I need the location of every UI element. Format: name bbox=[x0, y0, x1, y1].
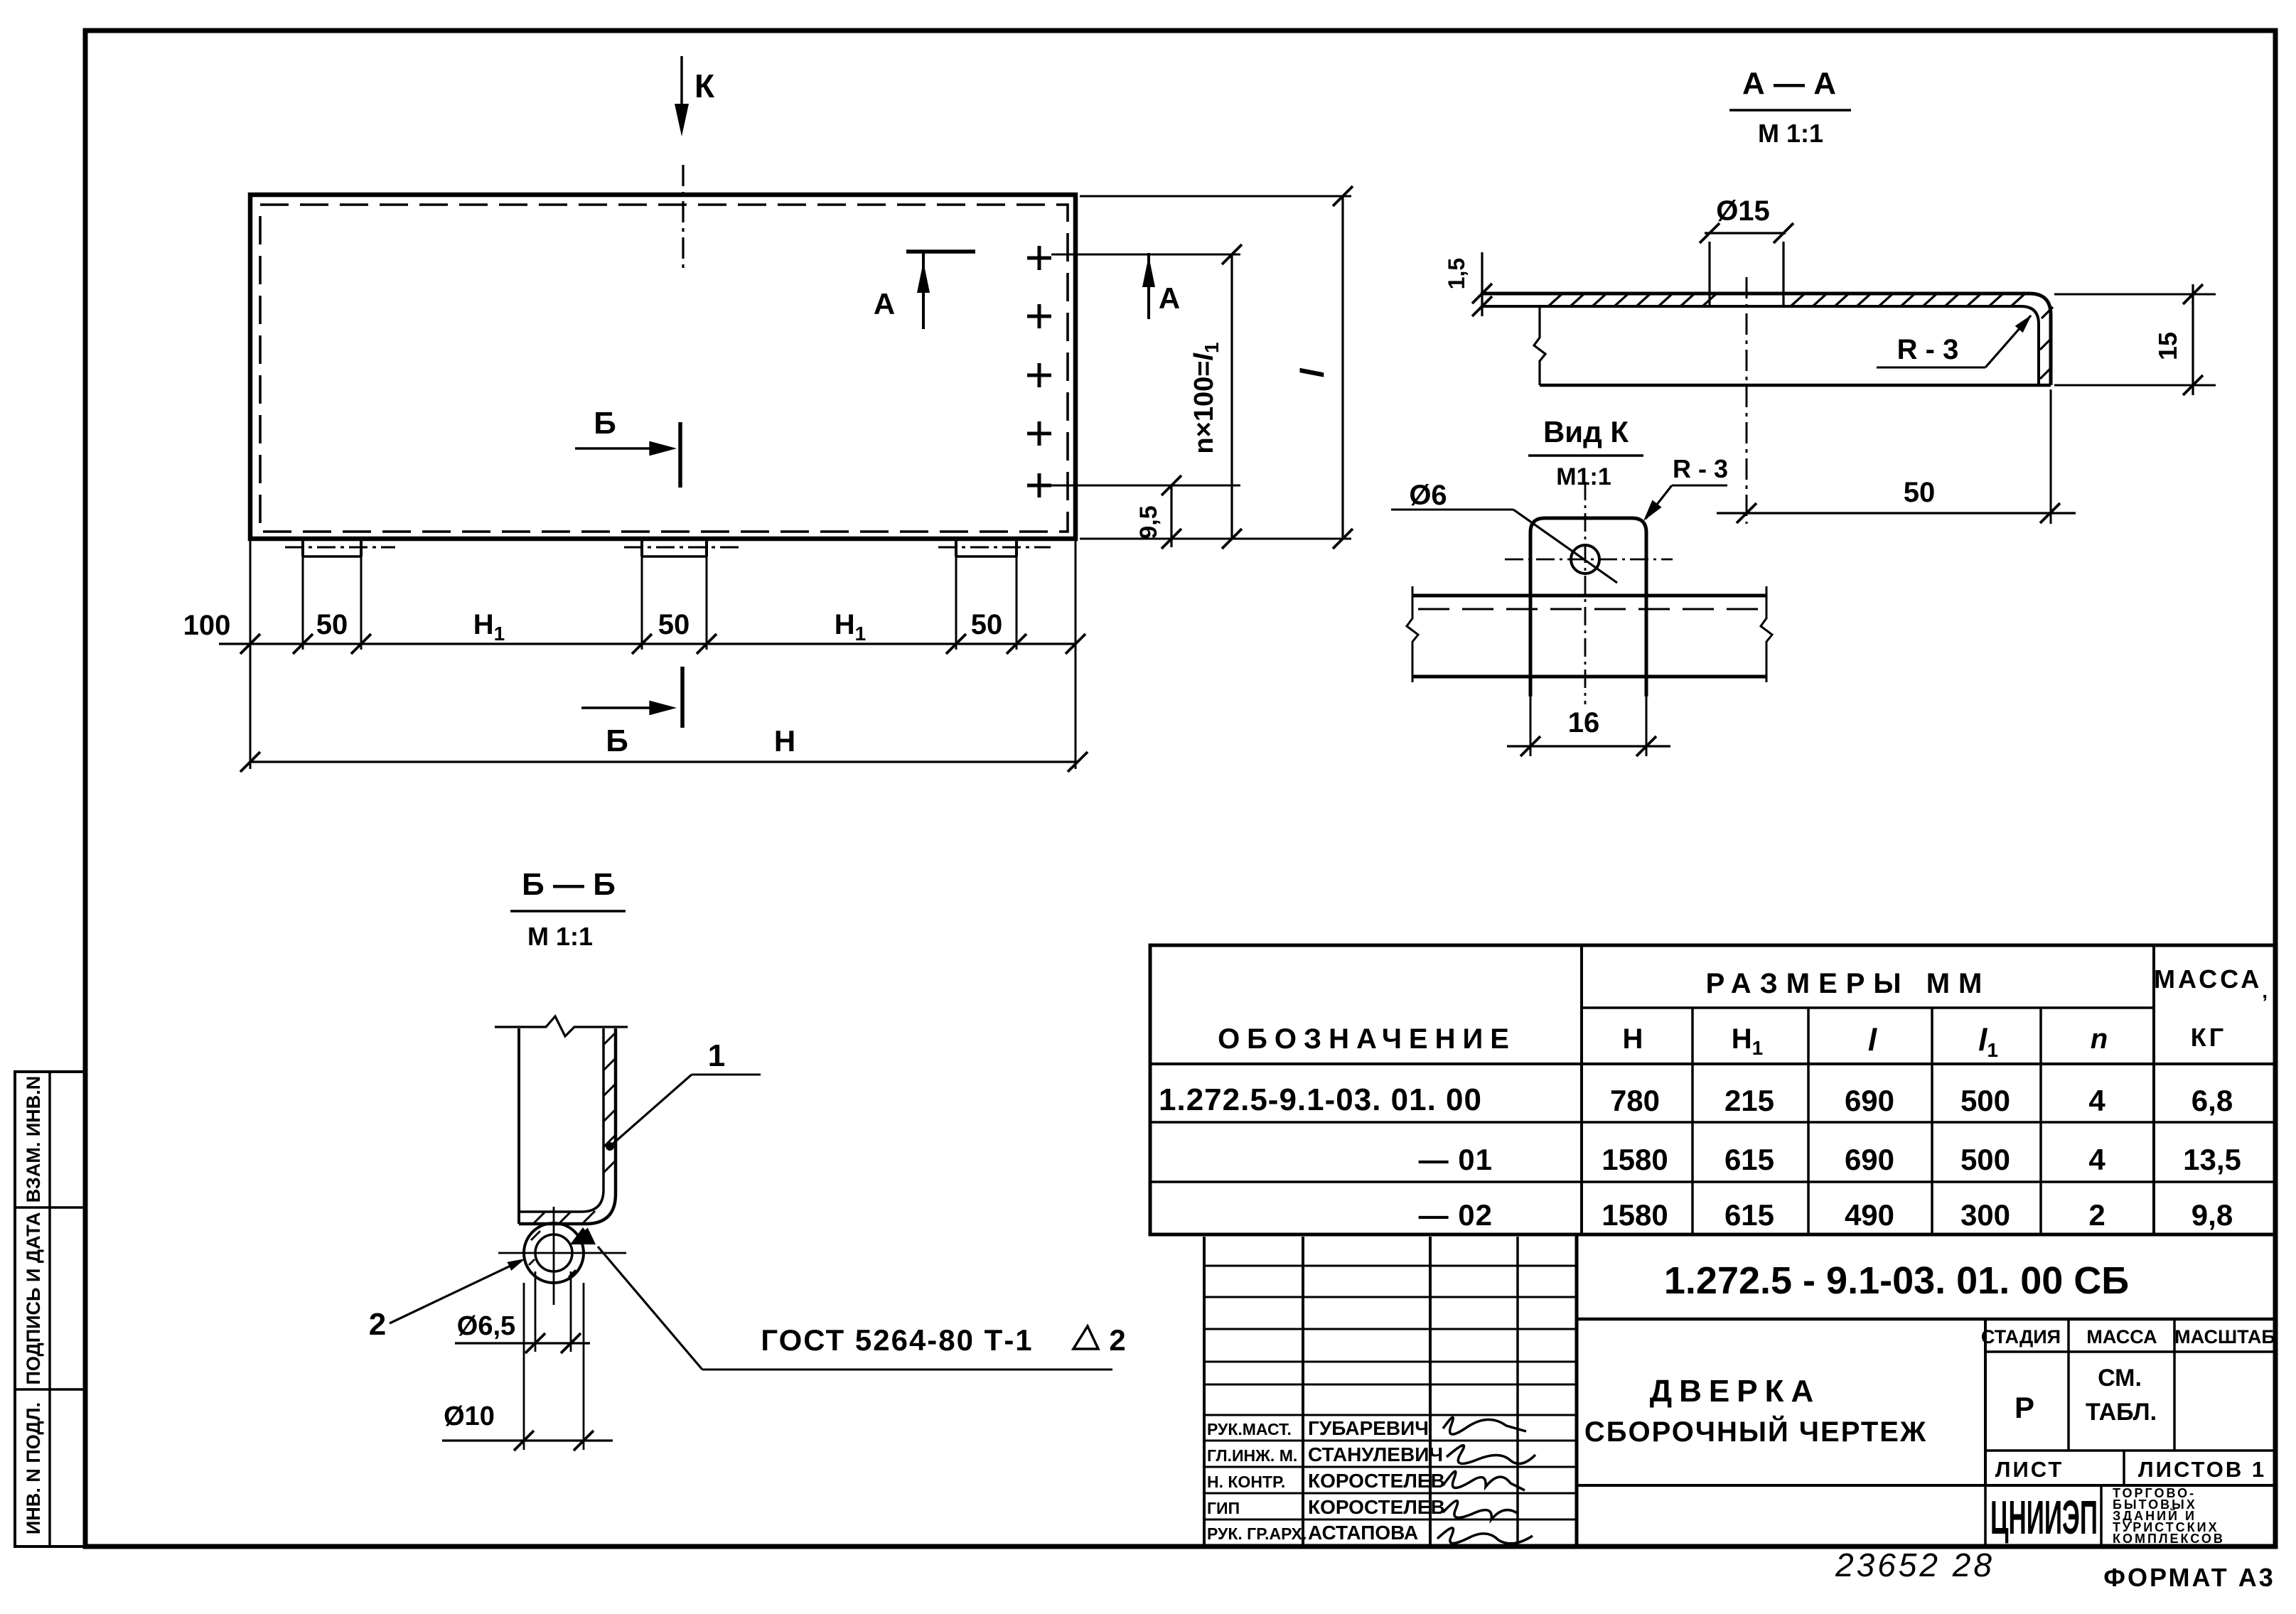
table row line 2 bbox=[1150, 1180, 2275, 1183]
svg-text:ФОРМАТ А3: ФОРМАТ А3 bbox=[2103, 1563, 2275, 1592]
dimension line n x 100 = L1 bbox=[1230, 254, 1233, 539]
section A-A hatching bbox=[1548, 294, 1562, 306]
extension line from bottom cross bbox=[1051, 485, 1240, 487]
pin vertical centerline bbox=[553, 1207, 555, 1305]
table column n bbox=[2152, 945, 2155, 1234]
table column oboznachenie bbox=[1580, 945, 1583, 1234]
svg-text:ГИП: ГИП bbox=[1207, 1499, 1240, 1517]
tab outline view K bbox=[1530, 518, 1646, 696]
svg-text:215: 215 bbox=[1724, 1084, 1774, 1117]
centerline K bbox=[682, 165, 684, 269]
extension lines dia 6,5 bbox=[535, 1271, 537, 1352]
leader 2 bbox=[390, 1261, 521, 1323]
hinge tab right bbox=[955, 539, 957, 556]
hole edges in section A-A bbox=[1708, 242, 1710, 306]
dimension line dia 6,5 bbox=[455, 1342, 590, 1344]
svg-text:50: 50 bbox=[316, 609, 348, 640]
svg-text:Ø6: Ø6 bbox=[1409, 480, 1447, 511]
svg-text:500: 500 bbox=[1960, 1084, 2010, 1117]
data table outer box bbox=[1150, 945, 2275, 1234]
svg-text:ОБОЗНАЧЕНИЕ: ОБОЗНАЧЕНИЕ bbox=[1218, 1023, 1516, 1055]
extension leg to 50 dim bbox=[2050, 389, 2052, 524]
svg-text:ЛИСТОВ 1: ЛИСТОВ 1 bbox=[2138, 1457, 2266, 1482]
view arrow K bbox=[680, 56, 683, 124]
strip right break bbox=[1761, 586, 1772, 682]
svg-text:4: 4 bbox=[2088, 1143, 2105, 1176]
svg-text:СМ.: СМ. bbox=[2098, 1365, 2142, 1392]
extension line panel top to L dim bbox=[1080, 195, 1351, 198]
svg-text:КОРОСТЕЛЕВ: КОРОСТЕЛЕВ bbox=[1308, 1470, 1445, 1492]
svg-text:— 01: — 01 bbox=[1419, 1143, 1493, 1176]
table column L bbox=[1931, 1008, 1933, 1234]
svg-text:РУК.МАСТ.: РУК.МАСТ. bbox=[1207, 1420, 1292, 1438]
hinge pin outer circle bbox=[524, 1223, 584, 1283]
svg-text:690: 690 bbox=[1845, 1143, 1894, 1176]
svg-text:КОМПЛЕКСОВ: КОМПЛЕКСОВ bbox=[2113, 1532, 2225, 1546]
section marker A left bbox=[906, 249, 975, 254]
dimension line 50 (A-A) bbox=[1717, 512, 2076, 514]
svg-text:50: 50 bbox=[971, 609, 1003, 640]
svg-text:Ø15: Ø15 bbox=[1716, 195, 1770, 227]
svg-text:ТАБЛ.: ТАБЛ. bbox=[2086, 1399, 2157, 1426]
svg-text:780: 780 bbox=[1610, 1084, 1660, 1117]
svg-text:500: 500 bbox=[1960, 1143, 2010, 1176]
svg-text:К: К bbox=[694, 68, 715, 104]
dimension line 16 bbox=[1530, 696, 1532, 756]
divider stadia columns bbox=[1984, 1319, 1987, 1485]
dimension line dia 15 bbox=[1705, 232, 1786, 234]
door edge strip in view K bbox=[1412, 594, 1766, 598]
dimension line 15 right bbox=[2054, 294, 2216, 296]
tab horizontal centerline bbox=[1505, 559, 1673, 561]
svg-text:16: 16 bbox=[1568, 707, 1600, 738]
extension lines dia 10 bbox=[523, 1283, 525, 1450]
svg-text:50: 50 bbox=[658, 609, 690, 640]
svg-text:Б — Б: Б — Б bbox=[522, 867, 616, 902]
svg-text:100: 100 bbox=[183, 610, 231, 641]
svg-text:СБОРОЧНЫЙ ЧЕРТЕЖ: СБОРОЧНЫЙ ЧЕРТЕЖ bbox=[1584, 1415, 1927, 1448]
title block line below doc number bbox=[1577, 1318, 2275, 1321]
hinge tab left bbox=[301, 539, 304, 556]
title block list row top bbox=[1985, 1449, 2275, 1452]
section A-A bottom edge bbox=[1540, 384, 2051, 387]
svg-text:Н: Н bbox=[774, 724, 795, 758]
svg-text:Б: Б bbox=[594, 406, 616, 441]
table row line 1 bbox=[1150, 1121, 2275, 1124]
svg-text:2: 2 bbox=[2088, 1198, 2105, 1232]
weld leader ГОСТ bbox=[598, 1247, 702, 1370]
svg-text:— 02: — 02 bbox=[1419, 1198, 1493, 1232]
extension line panel right edge bbox=[1075, 539, 1077, 769]
svg-text:n: n bbox=[2091, 1023, 2108, 1055]
svg-text:ГЛ.ИНЖ. М.: ГЛ.ИНЖ. М. bbox=[1207, 1446, 1297, 1465]
svg-text:КГ: КГ bbox=[2191, 1023, 2226, 1052]
table column H bbox=[1691, 1008, 1694, 1234]
svg-text:615: 615 bbox=[1724, 1198, 1774, 1232]
left margin stamp box bbox=[15, 1072, 86, 1546]
table column L1 bbox=[2039, 1008, 2042, 1234]
title block bottom band top bbox=[1577, 1484, 2275, 1487]
stamp grid horizontals bbox=[1204, 1265, 1577, 1267]
section marker Б lower bbox=[581, 706, 667, 709]
svg-text:ГУБАРЕВИЧ: ГУБАРЕВИЧ bbox=[1308, 1417, 1429, 1439]
title block outline bbox=[1575, 1234, 1579, 1546]
extension line panel bottom to L dim bbox=[1080, 538, 1351, 540]
svg-text:4: 4 bbox=[2088, 1084, 2105, 1117]
divider list listov bbox=[2123, 1451, 2125, 1485]
svg-text:1.272.5 - 9.1-03. 01. 00 СБ: 1.272.5 - 9.1-03. 01. 00 СБ bbox=[1664, 1259, 2129, 1302]
dimension line L bbox=[1341, 196, 1343, 539]
svg-text:А: А bbox=[874, 287, 895, 321]
svg-text:1580: 1580 bbox=[1602, 1143, 1668, 1176]
svg-text:R - 3: R - 3 bbox=[1897, 334, 1959, 365]
svg-text:300: 300 bbox=[1960, 1198, 2010, 1232]
dimension line H bbox=[250, 760, 1078, 763]
svg-text:СТАДИЯ: СТАДИЯ bbox=[1981, 1326, 2061, 1347]
svg-text:13,5: 13,5 bbox=[2183, 1143, 2241, 1176]
pin horizontal centerline bbox=[498, 1252, 626, 1254]
bend line dashed inset rectangle bbox=[260, 205, 1068, 532]
tab vertical centerline bbox=[1584, 482, 1587, 704]
svg-text:Ø10: Ø10 bbox=[444, 1402, 495, 1431]
svg-text:РАЗМЕРЫ ММ: РАЗМЕРЫ ММ bbox=[1706, 968, 1991, 999]
section marker Б upper bbox=[575, 447, 667, 450]
door panel outline (front view) bbox=[250, 195, 1075, 539]
svg-text:Вид К: Вид К bbox=[1543, 415, 1629, 448]
svg-text:6,8: 6,8 bbox=[2192, 1084, 2233, 1117]
hinge pin inner circle bbox=[535, 1234, 572, 1271]
divider cniiep cell bbox=[1984, 1485, 1987, 1546]
svg-text:615: 615 bbox=[1724, 1143, 1774, 1176]
svg-text:1: 1 bbox=[708, 1038, 725, 1073]
svg-text:690: 690 bbox=[1845, 1084, 1894, 1117]
svg-text:ГОСТ 5264-80 Т-1: ГОСТ 5264-80 Т-1 bbox=[761, 1323, 1033, 1357]
svg-text:ЦНИИЭП: ЦНИИЭП bbox=[1990, 1492, 2098, 1544]
Б-Б right wall inner bbox=[519, 1028, 603, 1212]
svg-text:Р: Р bbox=[2015, 1391, 2034, 1424]
svg-text:ЛИСТ: ЛИСТ bbox=[1995, 1457, 2064, 1482]
svg-text:l: l bbox=[1294, 367, 1331, 377]
svg-text:РУК. ГР.АРХ.: РУК. ГР.АРХ. bbox=[1207, 1524, 1307, 1543]
svg-text:Б: Б bbox=[606, 723, 628, 758]
svg-text:М 1:1: М 1:1 bbox=[527, 922, 593, 951]
svg-text:Н. КОНТР.: Н. КОНТР. bbox=[1207, 1473, 1285, 1491]
svg-text:2: 2 bbox=[369, 1307, 386, 1342]
section A-A leg hatching bbox=[2042, 307, 2053, 318]
left stamp divider 1 bbox=[15, 1206, 86, 1209]
logo ЦНИИЭП bbox=[1990, 1492, 2098, 1544]
svg-text:КОРОСТЕЛЕВ: КОРОСТЕЛЕВ bbox=[1308, 1496, 1445, 1518]
dimension 1,5 left bbox=[1481, 252, 1483, 316]
svg-text:1.272.5-9.1-03. 01. 00: 1.272.5-9.1-03. 01. 00 bbox=[1159, 1082, 1482, 1117]
weld symbol delta 2 bbox=[1073, 1326, 1098, 1349]
svg-text:9,8: 9,8 bbox=[2192, 1198, 2233, 1232]
extension line from top cross bbox=[1051, 254, 1240, 256]
section A-A right bend bbox=[2029, 294, 2051, 385]
weld fillet bbox=[570, 1227, 596, 1244]
dimension line 100 50 H1 bbox=[219, 642, 1075, 645]
hinge tab middle bbox=[640, 539, 643, 556]
svg-text:МАСШТАБ: МАСШТАБ bbox=[2174, 1326, 2275, 1347]
section A-A left break edge bbox=[1534, 306, 1545, 385]
table column H1 bbox=[1807, 1008, 1810, 1234]
dimension line 9.5 bbox=[1170, 485, 1172, 547]
Б-Б right wall outer bbox=[519, 1028, 616, 1224]
left stamp divider column bbox=[48, 1072, 51, 1546]
svg-text:ПОДПИСЬ И ДАТА: ПОДПИСЬ И ДАТА bbox=[23, 1212, 44, 1384]
pin ring hatching bbox=[531, 1231, 540, 1240]
extension line panel left edge bbox=[250, 539, 252, 769]
section A-A plate top edge bbox=[1481, 292, 2029, 296]
svg-text:9,5: 9,5 bbox=[1135, 505, 1162, 539]
svg-text:2: 2 bbox=[1109, 1323, 1125, 1357]
svg-text:Ø6,5: Ø6,5 bbox=[457, 1311, 515, 1341]
tab hole view K bbox=[1571, 545, 1599, 574]
svg-text:М 1:1: М 1:1 bbox=[1758, 119, 1823, 148]
svg-text:1580: 1580 bbox=[1602, 1198, 1668, 1232]
svg-text:50: 50 bbox=[1904, 477, 1936, 508]
strip left break bbox=[1407, 586, 1418, 682]
dimension line dia 10 bbox=[442, 1439, 613, 1441]
svg-text:А: А bbox=[1159, 281, 1180, 315]
leader 1 bbox=[610, 1075, 692, 1146]
Б-Б wall hatching bbox=[603, 1033, 616, 1045]
title block stadia header line bbox=[1985, 1350, 2275, 1353]
weld crosses column bbox=[1027, 257, 1051, 260]
left stamp divider 2 bbox=[15, 1388, 86, 1391]
svg-text:Н: Н bbox=[1623, 1023, 1643, 1055]
svg-text:А — А: А — А bbox=[1742, 66, 1836, 101]
svg-text:l: l bbox=[1868, 1023, 1877, 1058]
svg-text:ДВЕРКА: ДВЕРКА bbox=[1650, 1374, 1820, 1409]
stamp grid verticals bbox=[1203, 1237, 1206, 1545]
svg-text:n×100=l1: n×100=l1 bbox=[1189, 342, 1223, 453]
hole centerline A-A bbox=[1746, 277, 1748, 524]
svg-text:МАССА: МАССА bbox=[2086, 1326, 2157, 1347]
svg-text:М1:1: М1:1 bbox=[1556, 463, 1611, 490]
svg-text:1,5: 1,5 bbox=[1444, 258, 1469, 289]
svg-text:ВЗАМ. ИНВ.N: ВЗАМ. ИНВ.N bbox=[23, 1076, 44, 1203]
svg-text:ИНВ. N ПОДЛ.: ИНВ. N ПОДЛ. bbox=[23, 1402, 44, 1534]
svg-text:23652 28: 23652 28 bbox=[1835, 1546, 1995, 1583]
signatures bbox=[1443, 1417, 1526, 1434]
Б-Б top break line bbox=[495, 1016, 628, 1036]
svg-text:15: 15 bbox=[2153, 332, 2182, 360]
section marker A right bbox=[1147, 253, 1150, 319]
svg-text:R - 3: R - 3 bbox=[1673, 454, 1728, 483]
svg-text:АСТАПОВА: АСТАПОВА bbox=[1308, 1522, 1418, 1544]
section A-A plate bottom edge bbox=[1481, 305, 2021, 308]
table header split razmery bbox=[1582, 1006, 2154, 1009]
table header bottom bbox=[1150, 1062, 2275, 1065]
svg-text:490: 490 bbox=[1845, 1198, 1894, 1232]
Б-Б left face line bbox=[517, 1028, 520, 1224]
svg-text:СТАНУЛЕВИЧ: СТАНУЛЕВИЧ bbox=[1308, 1443, 1443, 1465]
